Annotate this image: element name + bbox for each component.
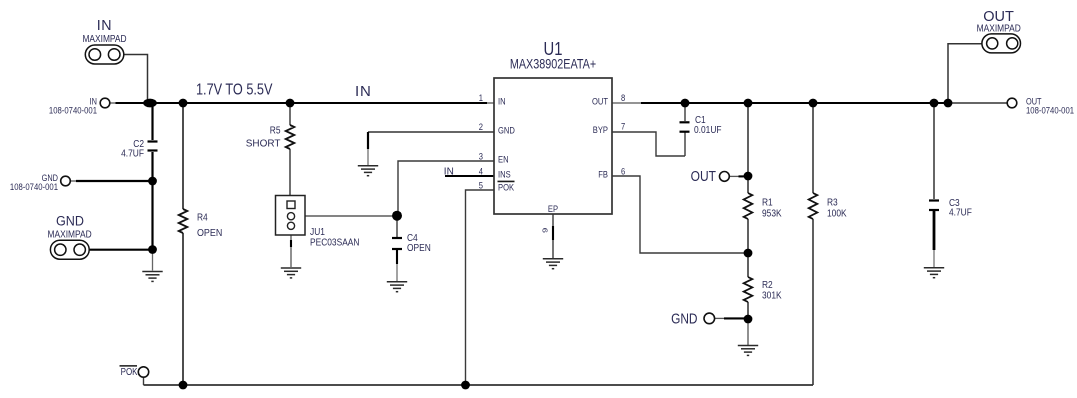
svg-text:EN: EN — [498, 154, 509, 165]
svg-text:GND: GND — [498, 125, 515, 136]
svg-text:7: 7 — [621, 121, 625, 132]
svg-text:FB: FB — [598, 169, 608, 180]
svg-text:POK: POK — [498, 181, 514, 192]
svg-text:R5: R5 — [270, 125, 281, 137]
svg-text:R4: R4 — [197, 212, 208, 224]
svg-text:953K: 953K — [762, 208, 782, 220]
svg-text:4.7UF: 4.7UF — [121, 148, 144, 160]
svg-text:MAXIMPAD: MAXIMPAD — [82, 33, 126, 44]
svg-text:IN: IN — [498, 96, 506, 107]
svg-text:GND: GND — [56, 213, 84, 229]
svg-text:1: 1 — [479, 92, 483, 103]
svg-text:INS: INS — [498, 169, 511, 180]
svg-text:108-0740-001: 108-0740-001 — [49, 105, 97, 116]
svg-text:108-0740-001: 108-0740-001 — [1026, 105, 1074, 116]
svg-text:2: 2 — [479, 121, 483, 132]
svg-text:100K: 100K — [827, 208, 847, 220]
svg-text:5: 5 — [479, 179, 483, 190]
svg-text:POK: POK — [121, 366, 138, 377]
svg-text:IN: IN — [97, 17, 112, 33]
svg-text:IN: IN — [355, 83, 372, 100]
svg-text:8: 8 — [621, 92, 625, 103]
svg-text:EP: EP — [548, 203, 558, 214]
svg-text:SHORT: SHORT — [246, 138, 281, 149]
svg-text:PEC03SAAN: PEC03SAAN — [310, 237, 360, 249]
svg-text:MAXIMPAD: MAXIMPAD — [977, 23, 1021, 34]
svg-text:9: 9 — [540, 227, 549, 233]
svg-text:MAXIMPAD: MAXIMPAD — [48, 229, 92, 240]
svg-text:OPEN: OPEN — [197, 227, 222, 239]
svg-text:OUT: OUT — [592, 96, 609, 107]
svg-text:OUT: OUT — [691, 168, 716, 185]
svg-text:GND: GND — [671, 310, 697, 326]
svg-text:0.01UF: 0.01UF — [694, 124, 722, 136]
svg-text:MAX38902EATA+: MAX38902EATA+ — [510, 56, 596, 71]
svg-text:4.7UF: 4.7UF — [949, 207, 972, 219]
svg-text:BYP: BYP — [593, 124, 608, 135]
svg-text:OPEN: OPEN — [407, 242, 431, 254]
svg-text:3: 3 — [479, 151, 483, 162]
svg-text:IN: IN — [444, 166, 454, 177]
svg-text:301K: 301K — [762, 290, 782, 302]
svg-text:6: 6 — [621, 165, 625, 176]
svg-text:4: 4 — [479, 165, 483, 176]
svg-text:108-0740-001: 108-0740-001 — [10, 181, 58, 192]
svg-text:1.7V TO 5.5V: 1.7V TO 5.5V — [196, 81, 273, 98]
